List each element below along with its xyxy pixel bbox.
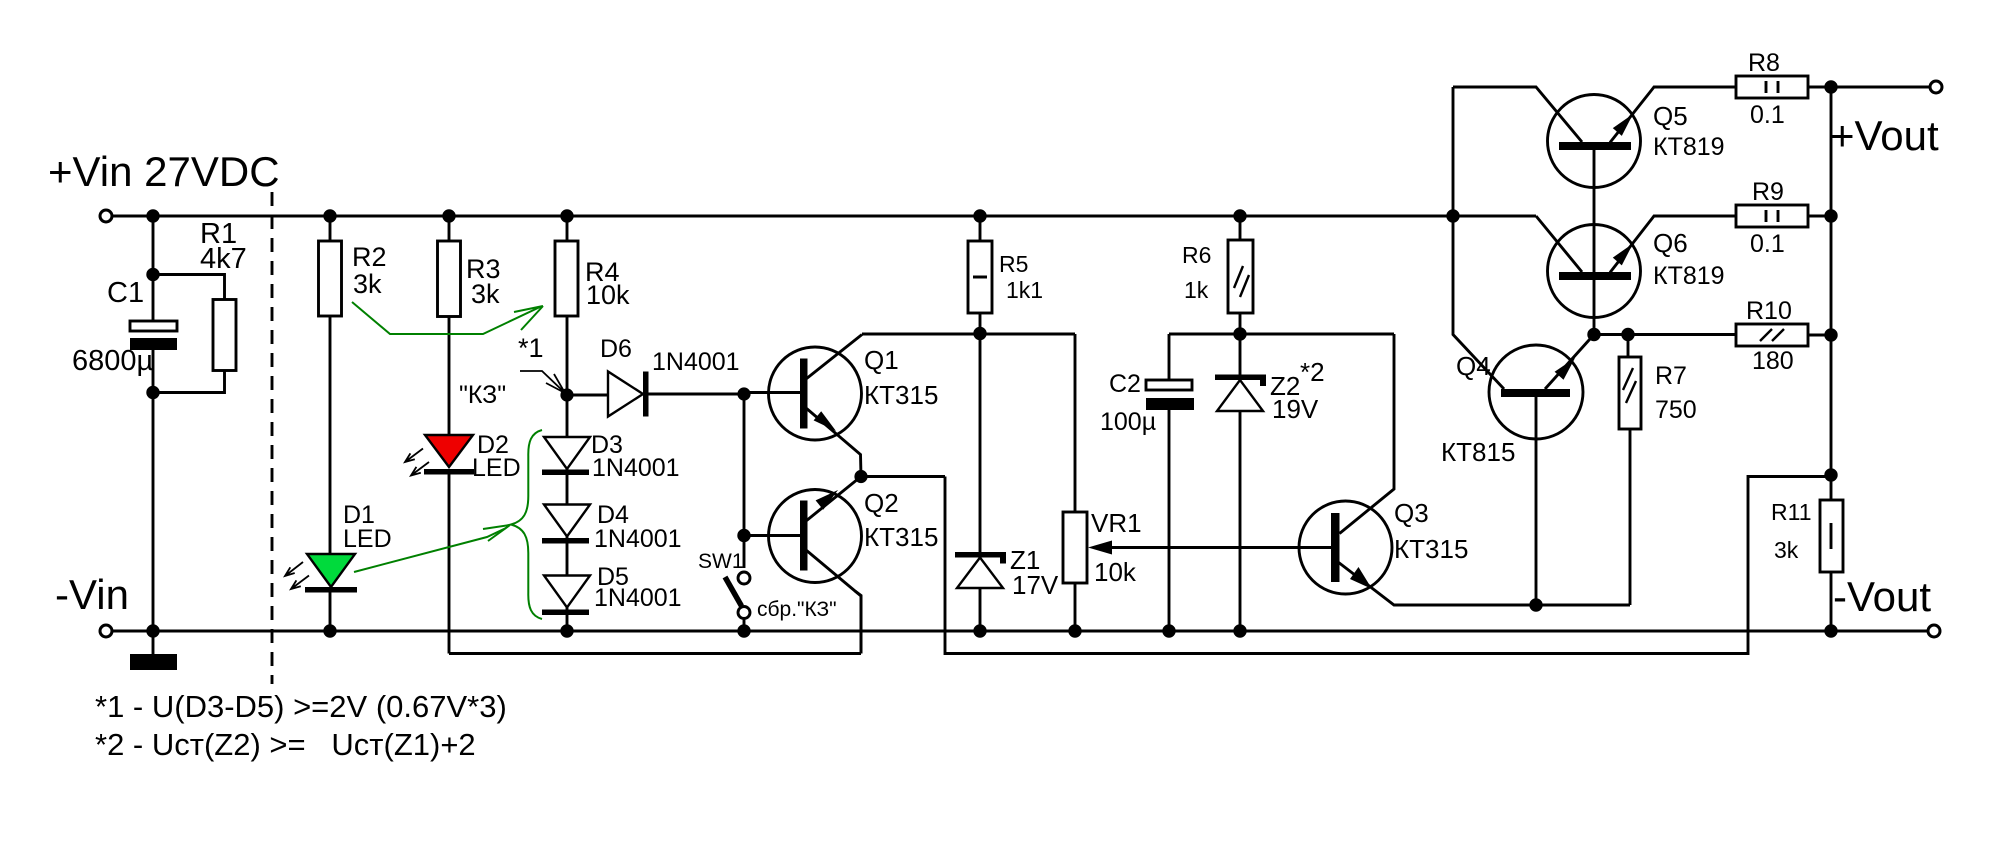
node +Vout terminal xyxy=(1930,81,1942,93)
wire D6 cathode to Q1 base node xyxy=(648,393,744,396)
wire C1 branch xyxy=(152,216,155,631)
svg-text:0.1: 0.1 xyxy=(1750,101,1785,129)
capacitor C2 xyxy=(1168,334,1171,631)
dashed separator line xyxy=(271,192,274,684)
svg-text:Q6: Q6 xyxy=(1653,228,1688,258)
LED D1 xyxy=(307,554,355,587)
svg-text:3k: 3k xyxy=(1774,537,1799,563)
svg-text:1N4001: 1N4001 xyxy=(652,348,740,376)
resistor R2 xyxy=(319,241,342,316)
svg-text:750: 750 xyxy=(1655,396,1697,424)
svg-text:-Vout: -Vout xyxy=(1833,573,1931,620)
transistor Q2 xyxy=(769,490,862,583)
wire left return box D2 to Q2 xyxy=(449,591,861,654)
wire D6 anode xyxy=(573,394,608,397)
wire R5 branch xyxy=(979,216,982,552)
wire VR1 top xyxy=(1074,334,1077,512)
node junction R4 top xyxy=(560,209,573,222)
svg-text:10k: 10k xyxy=(586,280,630,310)
LED D2 light arrows xyxy=(405,449,429,476)
switch SW1 xyxy=(738,572,750,584)
zener Z2 xyxy=(1239,334,1242,631)
svg-text:Q3: Q3 xyxy=(1394,498,1429,528)
svg-text:C2: C2 xyxy=(1109,370,1141,398)
svg-text:R7: R7 xyxy=(1655,362,1687,390)
node junction Q2 base xyxy=(737,529,750,542)
svg-text:3k: 3k xyxy=(471,279,500,309)
svg-text:КТ315: КТ315 xyxy=(864,522,938,552)
wire bottom rail xyxy=(112,630,1928,633)
svg-text:R8: R8 xyxy=(1748,49,1780,77)
transistor Q4 xyxy=(1489,345,1583,439)
svg-text:1k: 1k xyxy=(1184,277,1209,303)
node junction C1 top xyxy=(146,209,159,222)
svg-text:*2: *2 xyxy=(1300,357,1325,387)
node junction D6-Q1 xyxy=(737,387,750,400)
zener Z1 xyxy=(955,552,1006,558)
resistor R10 xyxy=(1594,333,1736,336)
svg-text:R6: R6 xyxy=(1182,242,1211,268)
svg-text:R11: R11 xyxy=(1771,499,1812,525)
resistor R9 xyxy=(1736,205,1808,227)
diode D4 xyxy=(544,505,590,537)
svg-text:R2: R2 xyxy=(352,242,387,272)
wire top rail xyxy=(112,215,1536,218)
LED D1 light arrows xyxy=(285,562,309,589)
svg-text:Q1: Q1 xyxy=(864,345,899,375)
svg-text:10k: 10k xyxy=(1094,557,1137,587)
svg-text:1N4001: 1N4001 xyxy=(594,584,682,612)
annotation green arrow R2 to R4 xyxy=(352,302,540,334)
diode D5 xyxy=(544,576,590,608)
transistor Q3 xyxy=(1299,501,1392,594)
wire +Vout rail xyxy=(1830,87,1833,631)
resistor R1 xyxy=(213,300,236,371)
wire SW1 vertical xyxy=(743,394,746,631)
svg-text:D6: D6 xyxy=(600,335,632,363)
node input+ terminal xyxy=(100,210,112,222)
svg-text:17V: 17V xyxy=(1012,570,1059,600)
resistor R3 xyxy=(438,241,461,317)
svg-text:19V: 19V xyxy=(1272,394,1319,424)
resistor R5 xyxy=(968,241,992,313)
svg-text:4k7: 4k7 xyxy=(200,243,247,275)
svg-text:*1 - U(D3-D5) >=2V (0.67V*3): *1 - U(D3-D5) >=2V (0.67V*3) xyxy=(95,689,507,724)
svg-text:1N4001: 1N4001 xyxy=(594,525,682,553)
svg-text:VR1: VR1 xyxy=(1091,508,1142,538)
wire R2 branch xyxy=(329,216,332,631)
svg-text:Q2: Q2 xyxy=(864,488,899,518)
transistor Q6 xyxy=(1548,225,1641,318)
svg-text:0.1: 0.1 xyxy=(1750,230,1785,258)
ground chassis bar xyxy=(152,631,155,654)
svg-text:1N4001: 1N4001 xyxy=(592,454,680,482)
node junction R5 bottom xyxy=(973,327,986,340)
svg-text:КТ819: КТ819 xyxy=(1653,262,1725,290)
svg-text:C1: C1 xyxy=(107,277,144,309)
resistor R7 xyxy=(1628,335,1630,606)
svg-text:SW1: SW1 xyxy=(698,550,744,573)
svg-text:КТ315: КТ315 xyxy=(1394,534,1468,564)
svg-text:R5: R5 xyxy=(999,251,1028,277)
wire Q1 base xyxy=(744,391,800,394)
wire R3 branch xyxy=(448,216,451,654)
wire R4 branch xyxy=(566,216,569,631)
capacitor C1 xyxy=(130,321,177,331)
wire Q1 collector xyxy=(862,333,1075,336)
LED D2 xyxy=(425,435,473,467)
svg-text:R10: R10 xyxy=(1746,297,1792,325)
svg-text:LED: LED xyxy=(343,525,392,553)
transistor Q5 xyxy=(1548,95,1641,188)
svg-text:+Vout: +Vout xyxy=(1830,112,1939,159)
node junction Q1 emitter / Q2 xyxy=(854,470,867,483)
svg-text:-Vin: -Vin xyxy=(55,571,129,618)
svg-text:Q5: Q5 xyxy=(1653,101,1688,131)
svg-text:LED: LED xyxy=(472,454,521,482)
svg-text:КТ815: КТ815 xyxy=(1441,437,1515,467)
svg-text:1k1: 1k1 xyxy=(1006,277,1043,303)
resistor R6 xyxy=(1228,240,1253,313)
svg-text:"КЗ": "КЗ" xyxy=(459,381,506,409)
resistor R11 xyxy=(1820,500,1843,572)
node junction R2 top xyxy=(323,209,336,222)
wire Q2 emitter node to right box xyxy=(861,477,1831,654)
leader *1 pointer xyxy=(520,371,565,393)
diode D6 xyxy=(608,372,643,417)
wire C2/Z2/Q3 horizontal xyxy=(1169,334,1394,534)
svg-text:Q4: Q4 xyxy=(1456,351,1491,381)
annotation green arrow D1 to brace xyxy=(354,528,506,572)
svg-text:КТ819: КТ819 xyxy=(1653,133,1725,161)
svg-text:180: 180 xyxy=(1752,347,1794,375)
resistor R4 xyxy=(555,241,578,316)
svg-text:*2 - Uст(Z2) >= Uст(Z1)+2: *2 - Uст(Z2) >= Uст(Z1)+2 xyxy=(95,727,476,762)
node junction R3 top xyxy=(442,209,455,222)
svg-text:сбр."КЗ": сбр."КЗ" xyxy=(757,598,837,621)
wire R1 branch xyxy=(153,275,225,393)
svg-text:*1: *1 xyxy=(518,333,544,363)
wire R6 branch xyxy=(1239,216,1242,334)
transistor Q1 xyxy=(769,347,862,440)
wire Q2 base xyxy=(744,534,800,537)
potentiometer VR1 xyxy=(1063,512,1087,583)
svg-text:3k: 3k xyxy=(353,269,382,299)
svg-text:R9: R9 xyxy=(1752,178,1784,206)
node input- terminal xyxy=(100,625,112,637)
svg-text:100µ: 100µ xyxy=(1100,408,1156,436)
svg-text:+Vin 27VDC: +Vin 27VDC xyxy=(48,148,280,195)
node -Vout terminal xyxy=(1928,625,1940,637)
svg-text:6800µ: 6800µ xyxy=(72,345,154,377)
annotation green brace D3-D5 xyxy=(511,430,542,619)
svg-text:КТ315: КТ315 xyxy=(864,380,938,410)
diode D3 xyxy=(544,437,590,469)
resistor R8 xyxy=(1736,76,1808,98)
